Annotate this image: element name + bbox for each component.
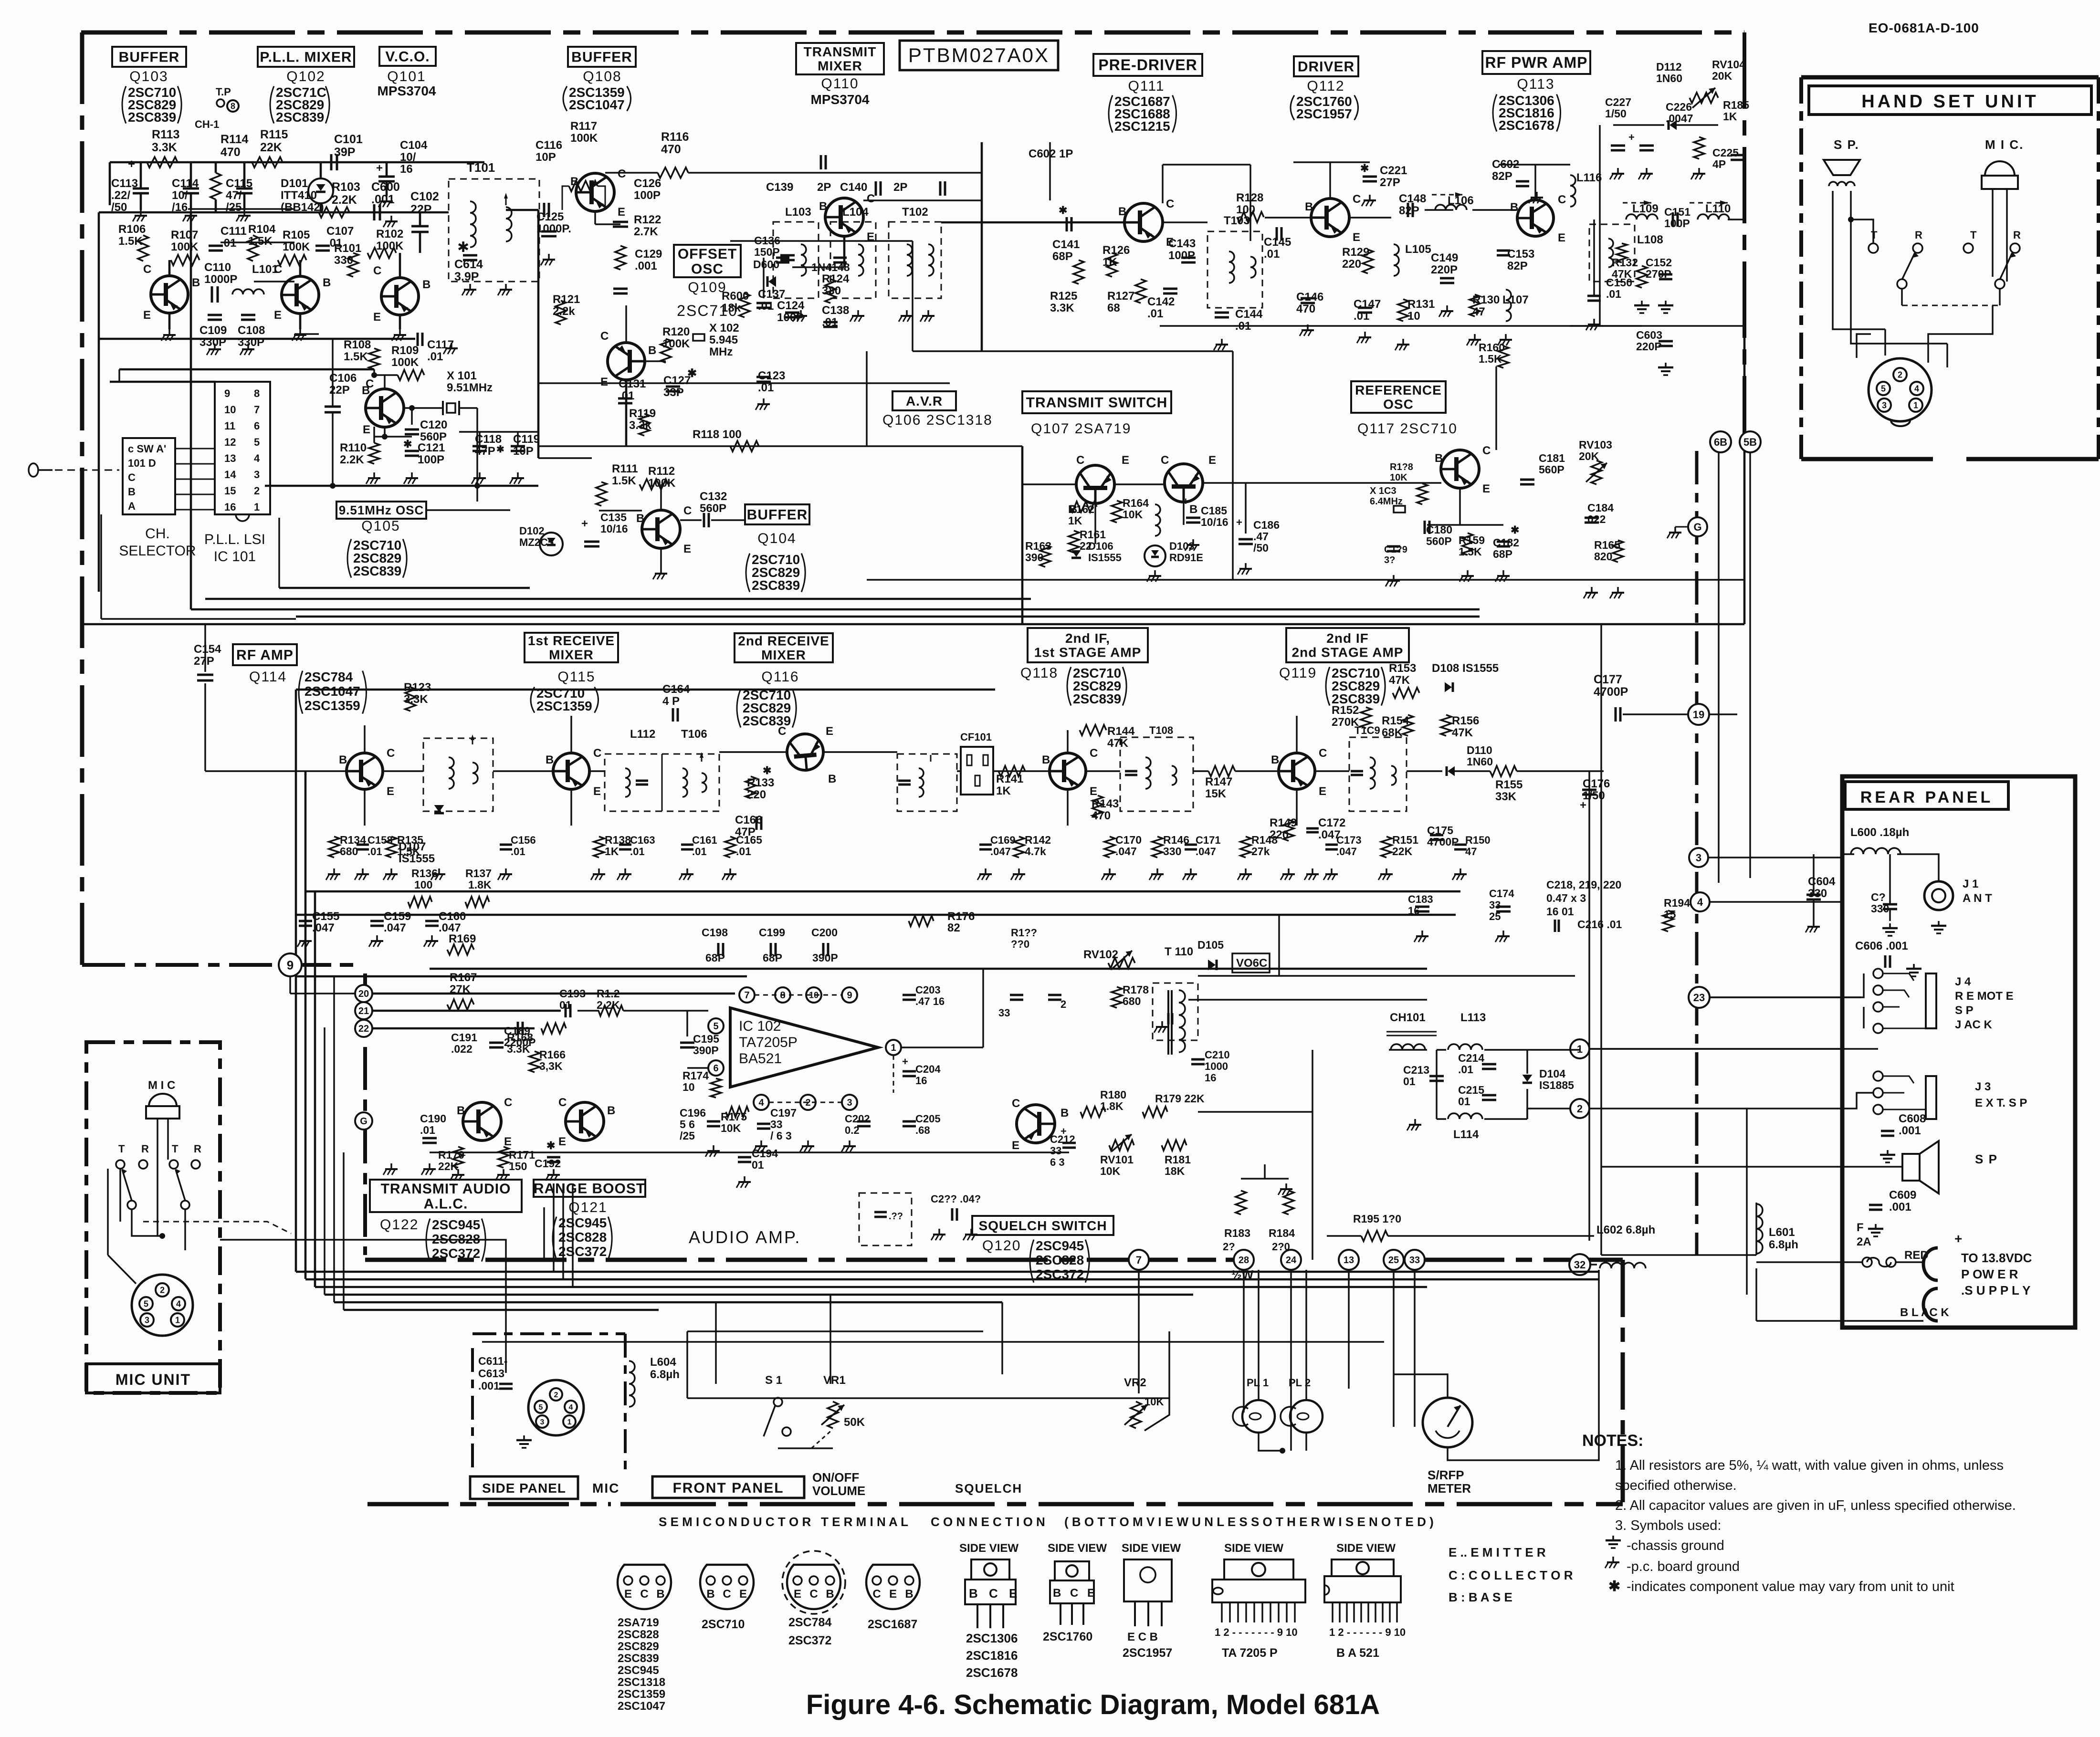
svg-text:3. Symbols used:: 3. Symbols used: xyxy=(1615,1518,1721,1533)
svg-text:C154: C154 xyxy=(194,643,221,656)
grounds under IC102 xyxy=(760,1141,762,1146)
svg-text:C: C xyxy=(593,747,601,760)
capacitor C164 4P xyxy=(672,708,674,722)
CH selector SW101 box xyxy=(123,438,175,514)
transistor Q116 2nd rx mixer xyxy=(786,732,825,772)
resistor R153 47K xyxy=(1393,688,1419,698)
svg-text:E: E xyxy=(826,725,833,738)
capacitor C115 47/25 xyxy=(236,188,252,190)
svg-text:2A: 2A xyxy=(1857,1235,1871,1248)
svg-text:.047: .047 xyxy=(384,921,406,934)
svg-text:C198: C198 xyxy=(702,926,728,939)
svg-text:+: + xyxy=(581,517,588,530)
svg-text:20: 20 xyxy=(358,989,369,999)
svg-text:-p.c. board ground: -p.c. board ground xyxy=(1627,1559,1740,1574)
resistor R149 220 / capacitor C172 .047 xyxy=(1283,820,1294,841)
resistor R136 100 xyxy=(408,897,432,907)
capacitor C600 .001 xyxy=(373,204,376,220)
terminal G right xyxy=(1688,517,1707,536)
svg-text:D105: D105 xyxy=(1197,939,1224,951)
svg-text:33K: 33K xyxy=(1495,790,1517,803)
svg-text:C163: C163 xyxy=(630,834,655,846)
svg-text:.001: .001 xyxy=(1889,1201,1911,1214)
svg-text:C172: C172 xyxy=(1318,816,1345,829)
capacitor C121 100P xyxy=(405,450,419,452)
svg-text:T: T xyxy=(118,1143,125,1155)
svg-text:CH.: CH. xyxy=(145,526,170,542)
svg-text:2SC372: 2SC372 xyxy=(558,1244,607,1259)
svg-text:33: 33 xyxy=(1409,1255,1420,1266)
svg-text:T 110: T 110 xyxy=(1165,945,1193,958)
capacitor C602 1P xyxy=(820,155,822,169)
svg-text:C115: C115 xyxy=(226,177,252,190)
svg-text:18K: 18K xyxy=(1165,1165,1185,1177)
svg-text:R101: R101 xyxy=(334,242,361,255)
terminal 8 circle xyxy=(227,100,239,112)
svg-text:R167: R167 xyxy=(450,971,477,984)
resistor R159 1.5K xyxy=(1462,533,1473,555)
resistor R110 2.2K xyxy=(369,443,379,464)
capacitor C225 4P xyxy=(1731,154,1744,157)
terminal row on bottom dash bus xyxy=(1129,1250,1149,1270)
svg-text:2: 2 xyxy=(254,485,260,497)
svg-text:470: 470 xyxy=(220,146,241,159)
svg-text:R123: R123 xyxy=(404,681,431,694)
SIDE PANEL label box xyxy=(470,1476,578,1499)
svg-text:FRONT PANEL: FRONT PANEL xyxy=(672,1480,784,1496)
svg-text:R195 1?0: R195 1?0 xyxy=(1353,1213,1401,1225)
rear panel wires xyxy=(1601,1254,1756,1256)
svg-text:✱: ✱ xyxy=(763,764,771,776)
HAND SET UNIT label box xyxy=(1809,86,2091,115)
capacitor C120 560P xyxy=(405,429,419,431)
wire long rail y1445 xyxy=(296,689,995,691)
svg-text:2: 2 xyxy=(554,1391,558,1399)
frame: bottom-left dash-dot to node 9 xyxy=(82,963,278,967)
wire 19 to C177 xyxy=(1623,713,1688,715)
svg-text:1/50: 1/50 xyxy=(1605,107,1627,120)
svg-text:B: B xyxy=(1271,753,1279,766)
svg-text:BUFFER: BUFFER xyxy=(571,50,632,65)
svg-text:MIC: MIC xyxy=(592,1481,619,1496)
capacitor C144 .01 xyxy=(1215,312,1229,314)
svg-text:VR2: VR2 xyxy=(1124,1376,1146,1389)
resistor R167 27K xyxy=(447,999,474,1010)
REAR PANEL box xyxy=(1842,776,2075,1328)
svg-text:2.2k: 2.2k xyxy=(553,305,575,318)
svg-text:L107: L107 xyxy=(1502,293,1529,306)
svg-text:D108 IS1555: D108 IS1555 xyxy=(1432,662,1499,675)
block label PRE-DRIVER (Q111) xyxy=(1093,54,1202,76)
svg-text:4: 4 xyxy=(254,452,260,464)
svg-text:9: 9 xyxy=(847,990,852,1001)
diode D106 IS1555 xyxy=(1071,550,1081,557)
svg-text:C: C xyxy=(1353,193,1361,206)
wire rail R118 xyxy=(538,445,1022,447)
svg-text:/25: /25 xyxy=(680,1130,695,1142)
mic switch contacts xyxy=(116,1160,125,1169)
frame: main PCB dash-dot border left xyxy=(80,32,84,965)
svg-text:2SC1047: 2SC1047 xyxy=(304,684,360,699)
transistor Q111 pre-driver xyxy=(1124,203,1163,241)
svg-text:B: B xyxy=(819,200,827,213)
svg-text:IS1885: IS1885 xyxy=(1539,1079,1574,1091)
svg-text:J AC K: J AC K xyxy=(1955,1018,1992,1031)
wire 3/4 to rear xyxy=(1709,857,1842,858)
transistor Q119 IF amp2 xyxy=(1279,753,1315,789)
svg-text:C191: C191 xyxy=(451,1031,477,1044)
IC102 pin 6 xyxy=(708,1060,724,1076)
svg-text:68P: 68P xyxy=(763,952,782,964)
IC102 pin 9 xyxy=(842,987,857,1003)
capacitor C149 220P xyxy=(1440,277,1454,280)
svg-text:C158: C158 xyxy=(367,834,393,846)
svg-text:E: E xyxy=(1122,454,1129,467)
svg-text:4: 4 xyxy=(1697,896,1703,908)
svg-text:16: 16 xyxy=(224,501,236,513)
svg-text:47K: 47K xyxy=(1452,726,1473,739)
svg-text:C213: C213 xyxy=(1403,1064,1429,1076)
wire vertical right x3655 lower xyxy=(1743,326,1746,624)
svg-text:C140: C140 xyxy=(840,181,867,194)
svg-text:C: C xyxy=(1090,747,1098,760)
block label 2nd IF 1st STAGE AMP (Q118) xyxy=(1028,628,1148,662)
svg-text:L116: L116 xyxy=(1576,171,1602,184)
svg-text:220: 220 xyxy=(747,788,766,801)
svg-text:D104: D104 xyxy=(1539,1067,1565,1080)
svg-text:P OW E R: P OW E R xyxy=(1961,1267,2018,1281)
resistor R180 1.8K xyxy=(1081,1107,1105,1117)
capacitor C140 2P xyxy=(939,181,942,196)
svg-text:1 2 - - - - - - - 9 10: 1 2 - - - - - - - 9 10 xyxy=(1215,1626,1298,1638)
transformer T108 dashed xyxy=(1120,737,1193,811)
svg-text:100: 100 xyxy=(414,879,432,891)
RV101 10K / R181 18K xyxy=(1109,1140,1134,1151)
svg-text:10: 10 xyxy=(1407,310,1420,323)
capacitor C194 .01 xyxy=(738,1156,751,1159)
svg-text:1.5K: 1.5K xyxy=(118,235,143,248)
resistor R183 R184 half watt xyxy=(1236,1191,1246,1214)
capacitor C174 33/25 xyxy=(1496,906,1511,908)
capacitor C602 82P xyxy=(1516,180,1529,183)
svg-text:.001: .001 xyxy=(1899,1124,1921,1137)
svg-text:101 D: 101 D xyxy=(128,457,156,469)
capacitor C118 47P xyxy=(472,445,487,448)
svg-text:68P: 68P xyxy=(1052,250,1073,263)
svg-text:R159: R159 xyxy=(1459,534,1485,546)
block label 1st RECEIVE MIXER (Q115) xyxy=(525,633,618,662)
FRONT PANEL label box xyxy=(652,1476,804,1498)
svg-text:F: F xyxy=(1857,1221,1864,1234)
capacitor C135 10/16 electrolytic xyxy=(584,541,599,543)
svg-text:MHz: MHz xyxy=(709,345,733,358)
svg-text:SIDE VIEW: SIDE VIEW xyxy=(1122,1542,1181,1555)
svg-text:220P: 220P xyxy=(1636,340,1662,353)
svg-text:C: C xyxy=(778,725,786,738)
svg-text:RV102: RV102 xyxy=(1083,948,1118,961)
svg-text:VR1: VR1 xyxy=(823,1374,846,1387)
svg-text:E: E xyxy=(1012,1139,1019,1152)
svg-text:RF PWR AMP: RF PWR AMP xyxy=(1485,54,1587,71)
svg-text:R174: R174 xyxy=(682,1069,709,1082)
inductor L101 xyxy=(232,289,264,294)
svg-text:2SC784: 2SC784 xyxy=(788,1616,831,1629)
svg-text:2P: 2P xyxy=(893,181,907,194)
wire bottom bus 3 xyxy=(315,1286,1427,1288)
svg-text:7: 7 xyxy=(744,990,749,1001)
power connector arcs xyxy=(1923,1248,1938,1280)
svg-text:R E MOT E: R E MOT E xyxy=(1955,990,2014,1003)
meter S/RFP xyxy=(1423,1398,1472,1447)
svg-text:Q117 2SC710: Q117 2SC710 xyxy=(1357,421,1458,437)
svg-text:BUFFER: BUFFER xyxy=(747,507,808,523)
svg-text:R119: R119 xyxy=(629,407,656,420)
svg-text:10K: 10K xyxy=(721,1122,741,1134)
svg-text:B: B xyxy=(905,1588,913,1601)
transistor Q112 driver xyxy=(1311,199,1349,237)
svg-text:E: E xyxy=(143,309,151,322)
svg-text:2SC828: 2SC828 xyxy=(558,1230,607,1245)
capacitor C101 39P xyxy=(330,154,333,170)
svg-text:C: C xyxy=(373,264,381,277)
svg-text:C139: C139 xyxy=(766,181,793,194)
svg-text:B L AC K: B L AC K xyxy=(1900,1306,1949,1319)
transistor Q104 xyxy=(642,510,680,548)
svg-text:B: B xyxy=(1435,452,1443,465)
svg-text:C149: C149 xyxy=(1431,251,1458,264)
svg-text:D102: D102 xyxy=(519,525,545,537)
svg-text:Q115: Q115 xyxy=(557,669,595,685)
wires receive band xyxy=(305,770,346,772)
svg-text:+: + xyxy=(128,157,135,171)
svg-text:Q120: Q120 xyxy=(982,1238,1021,1254)
svg-text:C148: C148 xyxy=(1399,192,1426,205)
svg-text:330: 330 xyxy=(1163,845,1181,858)
transformer T109 dashed xyxy=(1349,737,1407,811)
wires to front panel xyxy=(715,1302,717,1384)
svg-text:C146: C146 xyxy=(1296,291,1323,303)
svg-text:C156: C156 xyxy=(511,834,536,846)
svg-text:B C E: B C E xyxy=(969,1586,1021,1601)
svg-text:3.9P: 3.9P xyxy=(454,270,479,283)
svg-text:2SC945: 2SC945 xyxy=(1036,1238,1084,1253)
svg-text:B: B xyxy=(828,773,836,785)
svg-text:1.5K: 1.5K xyxy=(248,235,273,248)
svg-text:.01: .01 xyxy=(511,846,525,858)
transistor Q101 xyxy=(381,278,419,315)
svg-text:R109: R109 xyxy=(391,344,419,357)
capacitor C611-C613 .001 xyxy=(499,1383,513,1385)
svg-text:A N T: A N T xyxy=(1963,892,1992,905)
svg-text:C606 .001: C606 .001 xyxy=(1855,940,1908,952)
resistor R109 100K xyxy=(398,370,424,380)
wire T101 to C116 xyxy=(506,209,538,211)
capacitor C124 100P xyxy=(785,312,799,314)
svg-text:X 101: X 101 xyxy=(447,369,477,382)
svg-text:.22/: .22/ xyxy=(111,189,130,202)
svg-text:REFERENCE: REFERENCE xyxy=(1355,383,1442,398)
transistor Q118 IF amp1 xyxy=(1050,753,1086,789)
package 2SC1760 side view xyxy=(1055,1561,1089,1580)
svg-text:C166: C166 xyxy=(735,814,762,827)
svg-text:9: 9 xyxy=(224,387,230,399)
capacitor C227 1/50 xyxy=(1611,145,1625,147)
svg-text:+: + xyxy=(1628,131,1635,143)
svg-text:27P: 27P xyxy=(194,655,214,668)
wire long rail y1292 xyxy=(296,616,1480,618)
svg-text:4700P: 4700P xyxy=(1427,836,1459,848)
svg-text:T102: T102 xyxy=(902,206,928,219)
svg-text:E: E xyxy=(373,311,381,324)
diode D110 1N60 xyxy=(1448,766,1455,776)
resistor R108 1.5K xyxy=(369,348,379,369)
resistor R179 22K xyxy=(1143,1107,1167,1117)
svg-text:L108: L108 xyxy=(1637,233,1663,246)
svg-text:C159: C159 xyxy=(384,910,411,923)
svg-text:J 4: J 4 xyxy=(1955,975,1971,988)
svg-text:ON/OFF: ON/OFF xyxy=(812,1470,859,1485)
svg-text:2. All capacitor values are gi: 2. All capacitor values are given in uF,… xyxy=(1615,1498,2016,1513)
svg-text:E: E xyxy=(593,785,601,798)
block label TRANSMIT MIXER (Q110) xyxy=(796,43,884,74)
antenna input connector xyxy=(29,463,38,477)
capacitor C113 .22/50 xyxy=(133,188,149,190)
svg-text:2SC1816: 2SC1816 xyxy=(966,1648,1018,1663)
svg-text:1.5K: 1.5K xyxy=(1479,353,1502,365)
svg-text:ITT410: ITT410 xyxy=(281,189,317,202)
inductor L114 coil xyxy=(1448,1113,1482,1119)
svg-text:11: 11 xyxy=(224,420,235,432)
svg-text:A.L.C.: A.L.C. xyxy=(424,1196,468,1212)
svg-text:C160: C160 xyxy=(439,910,466,923)
capacitor C177 4700P xyxy=(1615,707,1617,722)
svg-text:C184: C184 xyxy=(1587,502,1614,514)
note pc board ground symbol xyxy=(1612,1557,1614,1562)
resistor R161 22 xyxy=(1069,531,1079,553)
svg-text:R136: R136 xyxy=(411,867,438,879)
svg-text:01: 01 xyxy=(559,999,572,1011)
svg-text:L602 6.8µh: L602 6.8µh xyxy=(1596,1224,1655,1236)
svg-text:RF AMP: RF AMP xyxy=(236,648,294,663)
IC102 dashed pin rails xyxy=(755,994,842,996)
svg-text:2SC829: 2SC829 xyxy=(618,1640,659,1653)
svg-text:33P: 33P xyxy=(663,386,684,399)
wires right top xyxy=(1593,220,1595,296)
svg-text:33: 33 xyxy=(1050,1145,1061,1157)
svg-text:Figure 4-6. Schematic Diagram,: Figure 4-6. Schematic Diagram, Model 681… xyxy=(806,1689,1380,1720)
svg-text:3?: 3? xyxy=(1384,555,1395,565)
svg-text:C218, 219, 220: C218, 219, 220 xyxy=(1546,879,1621,891)
svg-text:C: C xyxy=(872,1588,881,1601)
svg-text:L104: L104 xyxy=(842,206,869,219)
svg-text:C200: C200 xyxy=(811,926,838,939)
svg-text:L110: L110 xyxy=(1705,202,1731,215)
svg-text:C609: C609 xyxy=(1889,1189,1916,1202)
svg-text:6.8µh: 6.8µh xyxy=(1769,1238,1798,1251)
svg-text:R115: R115 xyxy=(260,128,288,141)
svg-text:16: 16 xyxy=(400,163,413,176)
svg-text:VOLUME: VOLUME xyxy=(812,1484,865,1498)
svg-text:8: 8 xyxy=(254,387,260,399)
frame: main PCB dash-dot border top xyxy=(81,31,1744,35)
svg-text:C108: C108 xyxy=(238,324,265,337)
svg-text:PL 1: PL 1 xyxy=(1247,1377,1269,1389)
svg-text:16 01: 16 01 xyxy=(1546,905,1574,918)
svg-text:TA 7205 P: TA 7205 P xyxy=(1222,1646,1278,1660)
svg-text:C111: C111 xyxy=(220,225,247,238)
svg-text:1 2 - - - - - - 9 10: 1 2 - - - - - - 9 10 xyxy=(1329,1626,1406,1638)
svg-text:15: 15 xyxy=(1664,908,1676,921)
svg-text:C611-: C611- xyxy=(478,1355,507,1367)
svg-text:C186: C186 xyxy=(1253,519,1280,531)
svg-text:Q107 2SA719: Q107 2SA719 xyxy=(1031,421,1131,437)
resistor R112 100K xyxy=(640,479,668,490)
capacitor C117 .01 xyxy=(417,333,419,346)
svg-text:C124: C124 xyxy=(777,299,805,312)
svg-text:B: B xyxy=(607,1104,615,1117)
svg-text:22K: 22K xyxy=(260,141,282,154)
svg-text:AUDIO AMP.: AUDIO AMP. xyxy=(689,1227,801,1247)
svg-text:E: E xyxy=(1319,785,1326,798)
terminal 3 right xyxy=(1689,848,1708,867)
resistor R126 1K xyxy=(1107,253,1117,277)
svg-text:.047: .047 xyxy=(1115,845,1137,858)
svg-text:5: 5 xyxy=(1881,384,1886,393)
svg-text:C169: C169 xyxy=(990,834,1016,846)
svg-text:R194: R194 xyxy=(1664,897,1690,909)
svg-text:R129: R129 xyxy=(1342,246,1369,259)
svg-text:390P: 390P xyxy=(812,952,838,964)
svg-text:B: B xyxy=(323,276,331,289)
svg-text:1.5K: 1.5K xyxy=(612,474,636,487)
svg-text:MIC UNIT: MIC UNIT xyxy=(115,1371,191,1388)
svg-text:.01: .01 xyxy=(1147,307,1163,320)
wire right column dash vertical x3555 xyxy=(1695,451,1699,1255)
IC102 pin 4 xyxy=(754,1095,769,1110)
svg-text:B: B xyxy=(1189,503,1197,516)
svg-text:3.3K: 3.3K xyxy=(1050,302,1074,314)
microphone symbol xyxy=(149,1094,177,1106)
svg-text:C190: C190 xyxy=(420,1112,446,1125)
block label REFERENCE OSC (Q117) xyxy=(1351,381,1446,413)
svg-text:20K: 20K xyxy=(1579,450,1599,462)
transistor Q117 reference osc xyxy=(1441,450,1479,488)
svg-text:330: 330 xyxy=(1871,902,1889,915)
svg-text:2: 2 xyxy=(1898,370,1902,379)
svg-text:.01: .01 xyxy=(758,300,774,313)
svg-text:B: B xyxy=(339,753,347,766)
svg-text:Q101: Q101 xyxy=(387,69,426,84)
svg-text:1.5K: 1.5K xyxy=(1459,545,1482,558)
svg-text:C O N N E C T I O N: C O N N E C T I O N xyxy=(931,1515,1045,1529)
svg-text:R118 100: R118 100 xyxy=(693,428,742,441)
svg-text:.??: .?? xyxy=(889,1211,903,1222)
resistor R170 22K xyxy=(453,1147,463,1168)
resistor R158 10K xyxy=(1417,483,1428,504)
svg-text:1K: 1K xyxy=(996,785,1011,797)
svg-text:Q119: Q119 xyxy=(1279,665,1317,681)
svg-text:R131: R131 xyxy=(1407,298,1435,311)
resistor R171 150 xyxy=(498,1147,509,1168)
resistor R132 47K xyxy=(1637,266,1647,288)
svg-text:10/16: 10/16 xyxy=(600,523,628,535)
resistor R101 330 xyxy=(348,253,358,277)
svg-text:270P: 270P xyxy=(1646,268,1671,280)
dashed box near RV102 xyxy=(1153,983,1198,1040)
svg-text:.047: .047 xyxy=(1336,846,1357,858)
svg-text:C226: C226 xyxy=(1666,101,1692,113)
svg-text:C182: C182 xyxy=(1493,536,1519,549)
